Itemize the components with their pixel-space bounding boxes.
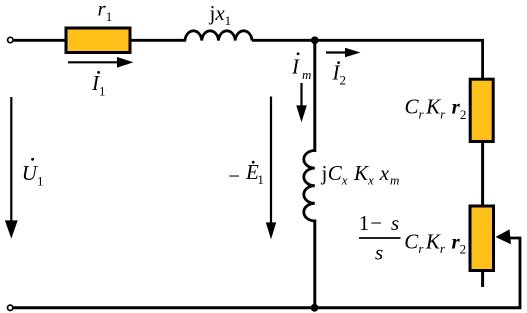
resistor CrKrr2 (upper right) [470,79,493,141]
arrow I1 (current direction) [68,57,134,68]
wire middle branch upper [313,40,316,152]
terminal (top-left input) [8,37,13,42]
wire R1 to inductor jx1 [130,39,186,42]
arrow -E1 (downward) [266,97,276,240]
svg-text:s: s [375,241,383,265]
node top junction [311,36,319,44]
node bottom junction [311,304,319,312]
wire inductor to top-right corner and down to resistor [252,40,483,79]
label I2 [332,60,347,87]
label U1 [22,158,44,189]
wire between right resistors [481,141,484,206]
wire middle branch lower [313,220,316,309]
svg-text:CrKrr2: CrKrr2 [404,229,466,256]
svg-text:CrKrr2: CrKrr2 [405,95,467,122]
label Im [291,52,311,82]
label -E1 [228,160,264,188]
arrow Im (downward) [296,83,307,122]
arrow U1 (downward) [5,97,18,239]
inductor jCxKxxm (magnetizing branch coil) [304,151,315,221]
inductor jx1 [185,31,252,41]
label (1-s)/s fraction [359,211,401,265]
wire bottom-right feedback with variable-resistor arrow [496,229,521,307]
svg-text:−: − [228,164,240,188]
wire top-left terminal to R1 [14,39,67,42]
arrow I2 [326,48,361,58]
label I1 [91,71,106,99]
resistor (1-s)/s CrKrr2 (lower right, variable) [470,206,494,271]
bottom wire [14,306,522,309]
resistor R1 (r1 box) [66,28,130,53]
svg-text:jCxKxxm: jCxKxxm [321,161,400,188]
stub below lower resistor [481,271,484,288]
terminal (bottom-left input) [8,305,13,310]
svg-text:1−s: 1−s [359,211,399,235]
